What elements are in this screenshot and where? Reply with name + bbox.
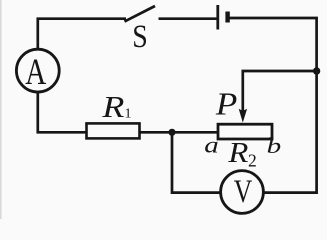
svg-text:b: b	[267, 133, 282, 158]
svg-text:S: S	[132, 19, 148, 55]
svg-text:R: R	[227, 137, 248, 169]
svg-text:V: V	[234, 174, 253, 210]
svg-text:A: A	[25, 52, 46, 93]
svg-text:1: 1	[125, 107, 132, 122]
svg-text:a: a	[204, 133, 219, 158]
svg-text:P: P	[215, 86, 237, 122]
svg-text:R: R	[101, 89, 124, 124]
svg-text:2: 2	[248, 151, 257, 171]
